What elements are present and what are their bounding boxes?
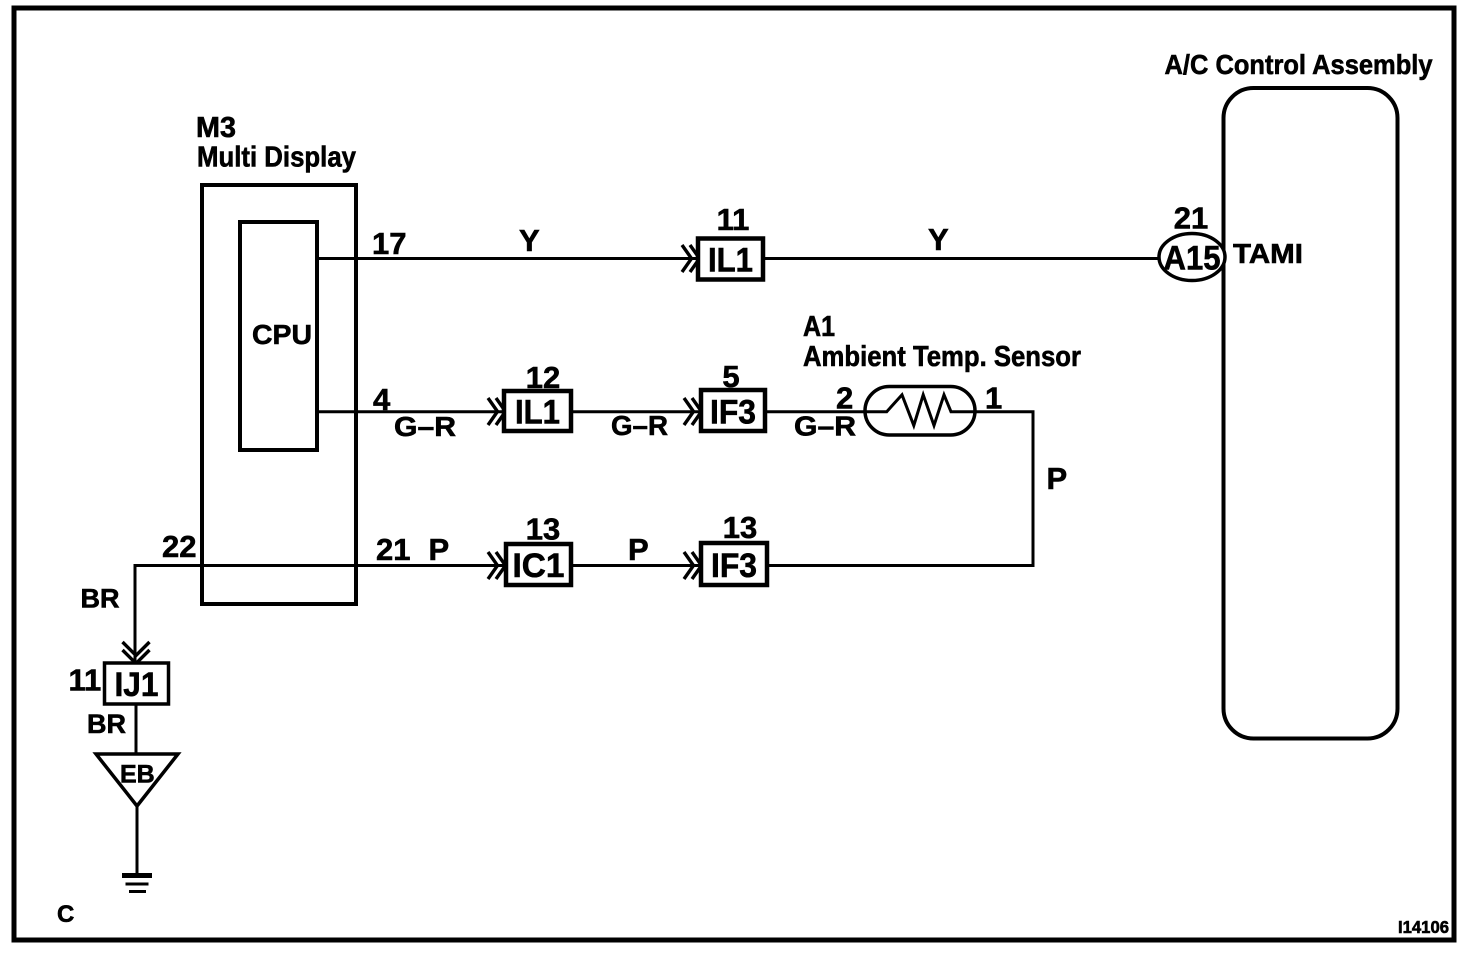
svg-text:P: P [1047,461,1068,496]
svg-text:1: 1 [985,381,1002,416]
svg-text:I14106: I14106 [1398,917,1449,937]
svg-text:13: 13 [723,510,757,545]
svg-text:17: 17 [372,226,406,261]
svg-text:IF3: IF3 [710,394,756,432]
svg-text:Ambient Temp. Sensor: Ambient Temp. Sensor [803,341,1081,373]
svg-text:IC1: IC1 [513,547,565,585]
svg-text:5: 5 [722,359,739,394]
svg-text:P: P [628,532,649,567]
svg-text:A1: A1 [803,311,835,343]
svg-text:P: P [429,532,450,567]
svg-text:CPU: CPU [252,319,312,350]
svg-text:11: 11 [69,663,102,698]
svg-text:Multi Display: Multi Display [197,142,356,174]
svg-text:13: 13 [526,512,560,547]
svg-text:IL1: IL1 [515,394,560,432]
svg-text:IL1: IL1 [708,242,753,280]
svg-text:2: 2 [836,381,853,416]
svg-text:EB: EB [120,761,155,789]
svg-text:BR: BR [81,584,120,614]
svg-text:21: 21 [1174,201,1208,236]
svg-text:G–R: G–R [394,411,456,442]
svg-text:BR: BR [87,709,126,739]
svg-text:11: 11 [717,202,750,237]
svg-text:21: 21 [376,532,410,567]
svg-text:22: 22 [162,529,196,564]
svg-text:TAMI: TAMI [1233,238,1303,269]
svg-text:IF3: IF3 [711,547,757,585]
svg-text:Y: Y [928,222,949,257]
svg-text:G–R: G–R [611,410,668,441]
svg-text:IJ1: IJ1 [115,666,159,704]
svg-text:Y: Y [519,223,540,258]
svg-text:12: 12 [526,360,560,395]
svg-text:A/C Control Assembly: A/C Control Assembly [1165,49,1433,80]
svg-text:M3: M3 [196,112,236,144]
svg-text:4: 4 [373,382,391,417]
svg-text:C: C [57,901,74,928]
svg-text:A15: A15 [1164,240,1221,278]
